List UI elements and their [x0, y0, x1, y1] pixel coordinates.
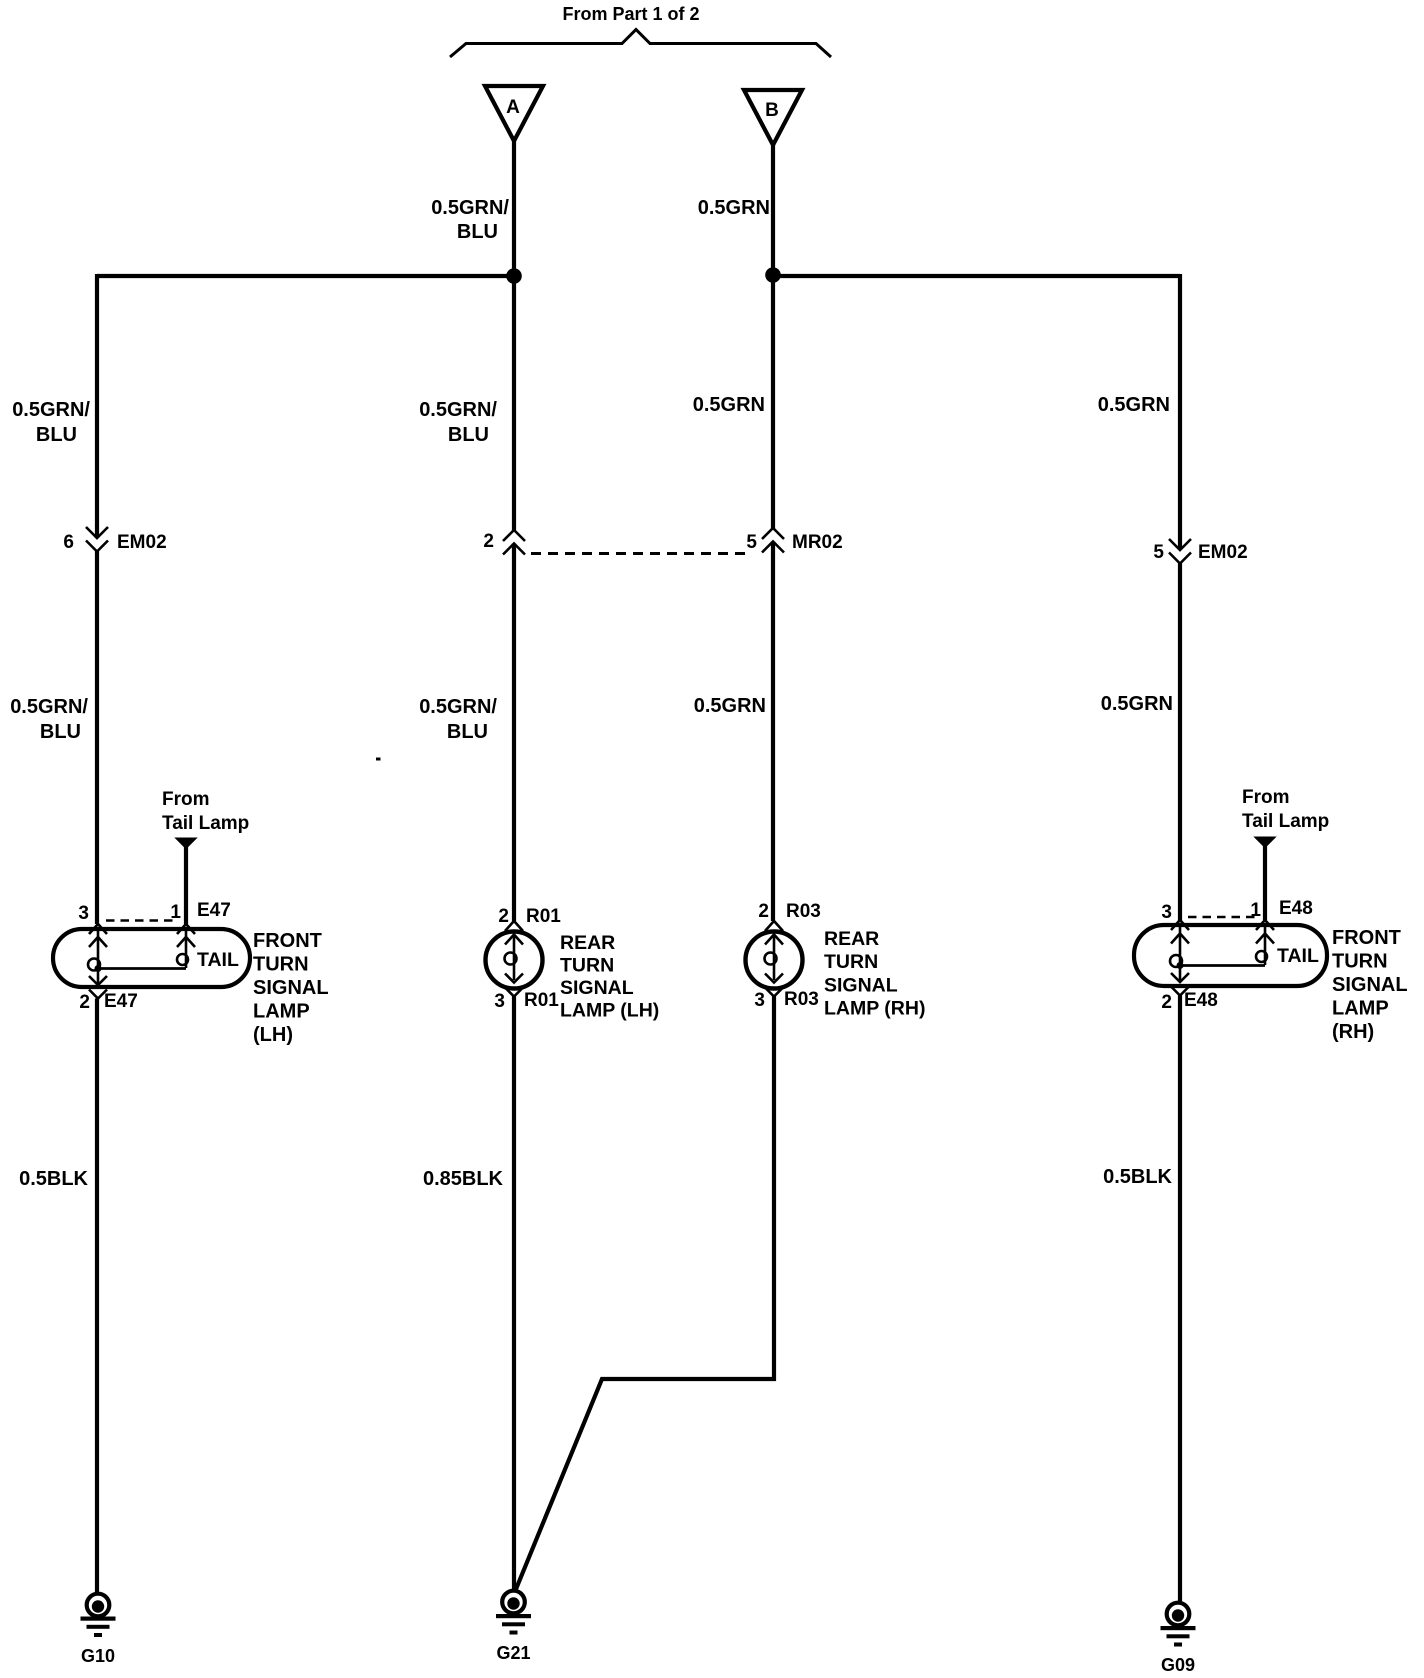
svg-text:2: 2 — [483, 531, 494, 552]
svg-text:0.5GRN/: 0.5GRN/ — [12, 399, 90, 421]
pin 1 chevrons E48 — [1256, 920, 1274, 930]
svg-text:TAIL: TAIL — [197, 949, 239, 971]
svg-text:E47: E47 — [197, 900, 231, 921]
wire W4 mid — [1178, 564, 1182, 922]
svg-text:0.5GRN: 0.5GRN — [1101, 693, 1173, 715]
lamp E48 FRONT TURN SIGNAL LAMP (RH) — [1134, 898, 1327, 1013]
svg-text:TURN: TURN — [560, 955, 614, 977]
label 0.5GRN/BLU row3 mid — [419, 696, 497, 743]
dashed pin3-pin1 — [1188, 916, 1256, 919]
filament turn — [1179, 925, 1182, 981]
svg-text:SIGNAL: SIGNAL — [824, 975, 898, 997]
svg-text:1: 1 — [1250, 900, 1261, 921]
svg-text:EM02: EM02 — [1198, 542, 1248, 563]
filament tail — [1264, 925, 1267, 965]
wire W4 lower 0.5BLK — [1178, 996, 1182, 1604]
svg-text:3: 3 — [1161, 902, 1172, 923]
svg-text:EM02: EM02 — [117, 532, 167, 553]
svg-text:3: 3 — [754, 990, 765, 1011]
svg-text:0.5GRN/: 0.5GRN/ — [419, 399, 497, 421]
internal common wire — [1180, 964, 1265, 967]
label REAR TURN SIGNAL LAMP (RH) — [824, 928, 925, 1020]
wire W4 upper — [1178, 274, 1182, 549]
svg-text:From: From — [162, 789, 210, 810]
svg-text:SIGNAL: SIGNAL — [1332, 974, 1408, 996]
label 0.5GRN/BLU row2 left — [12, 399, 90, 446]
connector MR02 pin 5 — [746, 528, 842, 553]
svg-text:E48: E48 — [1279, 898, 1313, 919]
svg-text:LAMP: LAMP — [1332, 998, 1389, 1020]
svg-text:Tail Lamp: Tail Lamp — [162, 813, 249, 834]
svg-text:BLU: BLU — [457, 221, 498, 243]
svg-text:R03: R03 — [786, 901, 821, 922]
svg-text:SIGNAL: SIGNAL — [560, 977, 634, 999]
svg-text:BLU: BLU — [448, 424, 489, 446]
label 0.5GRN/BLU row1 — [431, 197, 509, 243]
pin 1 chevrons E47 — [177, 924, 195, 934]
svg-text:R01: R01 — [524, 990, 559, 1011]
brace From Part 1 of 2 — [450, 4, 831, 57]
svg-text:FRONT: FRONT — [253, 930, 322, 952]
svg-text:2: 2 — [1161, 992, 1172, 1013]
junction dot B — [765, 267, 781, 283]
wire B mid — [771, 542, 775, 922]
pin 2 chevrons R03 — [765, 921, 783, 931]
connector triangle A — [485, 86, 543, 141]
svg-text:LAMP (LH): LAMP (LH) — [560, 1000, 659, 1022]
svg-text:R01: R01 — [526, 906, 561, 927]
svg-text:BLU: BLU — [40, 721, 81, 743]
svg-text:6: 6 — [63, 532, 74, 553]
svg-text:0.85BLK: 0.85BLK — [423, 1168, 504, 1190]
pin 2 chevrons R01 — [505, 921, 523, 931]
svg-text:LAMP: LAMP — [253, 1001, 310, 1023]
wire B vertical upper — [771, 143, 775, 529]
svg-text:0.5BLK: 0.5BLK — [19, 1168, 88, 1190]
wire W1 lower 0.5BLK — [95, 999, 99, 1595]
filament turn — [97, 929, 100, 984]
svg-text:SIGNAL: SIGNAL — [253, 977, 329, 999]
lamp R03 REAR TURN SIGNAL LAMP (RH) — [746, 901, 821, 1011]
svg-text:R03: R03 — [784, 989, 819, 1010]
pin 3 chevrons E48 — [1171, 920, 1189, 930]
svg-text:2: 2 — [79, 992, 90, 1013]
wire W1 upper — [95, 274, 99, 538]
label FRONT TURN SIGNAL LAMP (RH) — [1332, 927, 1408, 1043]
label 0.5GRN/BLU row2 mid — [419, 399, 497, 446]
svg-text:3: 3 — [494, 991, 505, 1012]
svg-text:0.5GRN/: 0.5GRN/ — [431, 197, 509, 219]
svg-text:MR02: MR02 — [792, 532, 843, 553]
wire W1 mid — [95, 552, 99, 925]
svg-text:0.5GRN: 0.5GRN — [694, 695, 766, 717]
wire bus left (0.5GRN/BLU) — [97, 274, 514, 278]
svg-text:2: 2 — [498, 906, 509, 927]
label 0.5GRN/BLU row3 left — [10, 696, 88, 743]
svg-text:0.5GRN/: 0.5GRN/ — [419, 696, 497, 718]
svg-text:E47: E47 — [104, 991, 138, 1012]
svg-text:TURN: TURN — [1332, 951, 1388, 973]
lamp E47 FRONT TURN SIGNAL LAMP (LH) — [53, 900, 250, 1013]
svg-text:FRONT: FRONT — [1332, 927, 1401, 949]
connector EM02 pin 5 — [1153, 539, 1247, 564]
svg-text:1: 1 — [170, 902, 181, 923]
svg-text:0.5BLK: 0.5BLK — [1103, 1166, 1172, 1188]
wire bus right (0.5GRN) — [773, 274, 1180, 278]
svg-text:(LH): (LH) — [253, 1024, 293, 1046]
internal common wire — [98, 967, 186, 970]
svg-text:0.5GRN: 0.5GRN — [693, 394, 765, 416]
svg-text:5: 5 — [746, 532, 757, 553]
svg-text:Tail Lamp: Tail Lamp — [1242, 811, 1329, 832]
dashed pin3-pin1 — [106, 919, 176, 922]
svg-text:A: A — [506, 97, 520, 118]
lamp R01 REAR TURN SIGNAL LAMP (LH) — [486, 906, 562, 1012]
svg-text:3: 3 — [78, 903, 89, 924]
svg-text:LAMP (RH): LAMP (RH) — [824, 998, 925, 1020]
wire A vertical upper — [512, 139, 516, 531]
svg-text:G10: G10 — [81, 1646, 115, 1666]
ground G09 — [1161, 1603, 1196, 1675]
pin 3 chevrons R03 — [765, 974, 783, 983]
svg-text:(RH): (RH) — [1332, 1021, 1374, 1043]
svg-text:B: B — [765, 100, 779, 121]
label REAR TURN SIGNAL LAMP (LH) — [560, 932, 659, 1022]
label FRONT TURN SIGNAL LAMP (LH) — [253, 930, 329, 1046]
svg-text:BLU: BLU — [447, 721, 488, 743]
from tail lamp feed LH — [162, 789, 249, 924]
speck — [376, 758, 381, 761]
pin 3 chevrons R01 — [505, 974, 523, 983]
svg-text:0.5GRN: 0.5GRN — [1098, 394, 1170, 416]
connector EM02 pin 6 — [63, 527, 166, 553]
svg-text:2: 2 — [758, 901, 769, 922]
wire W3 lower 0.85BLK to G21 — [515, 997, 774, 1592]
svg-text:TURN: TURN — [253, 954, 309, 976]
ground G21 — [496, 1591, 531, 1663]
filament tail — [185, 929, 188, 968]
ground G10 — [81, 1594, 116, 1666]
svg-text:5: 5 — [1153, 542, 1164, 563]
svg-text:TURN: TURN — [824, 951, 878, 973]
svg-text:E48: E48 — [1184, 990, 1218, 1011]
pin 2 chevrons E47 — [89, 976, 107, 985]
filament — [773, 935, 776, 981]
svg-text:0.5GRN: 0.5GRN — [698, 197, 770, 219]
svg-text:REAR: REAR — [560, 932, 615, 954]
svg-text:BLU: BLU — [36, 424, 77, 446]
wire W2 lower 0.85BLK — [512, 997, 516, 1593]
svg-text:TAIL: TAIL — [1277, 945, 1319, 967]
from tail lamp feed RH — [1242, 787, 1329, 920]
connector R01 harness pin 2 — [483, 530, 525, 555]
dashed link 2 to 5 — [531, 552, 751, 555]
svg-text:From Part 1 of 2: From Part 1 of 2 — [562, 4, 699, 24]
svg-text:G09: G09 — [1161, 1655, 1195, 1675]
pin 3 chevrons E47 — [89, 924, 107, 934]
wire A mid — [512, 544, 516, 922]
svg-text:0.5GRN/: 0.5GRN/ — [10, 696, 88, 718]
pin 2 chevrons E48 — [1171, 973, 1189, 982]
svg-text:From: From — [1242, 787, 1290, 808]
svg-text:REAR: REAR — [824, 928, 879, 950]
connector triangle B — [744, 90, 802, 145]
filament — [513, 935, 516, 981]
junction dot A — [506, 268, 522, 284]
svg-text:G21: G21 — [496, 1643, 530, 1663]
